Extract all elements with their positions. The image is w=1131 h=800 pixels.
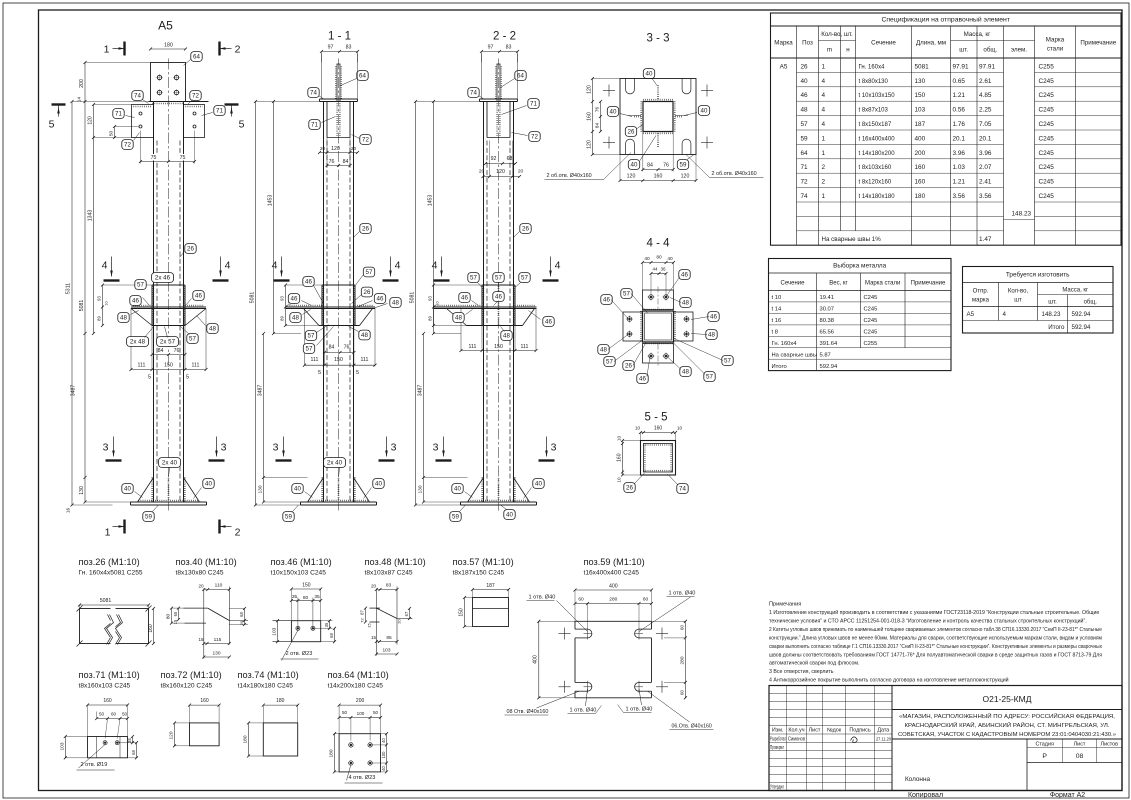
svg-text:поз.59 (М1:10): поз.59 (М1:10) xyxy=(584,557,645,567)
svg-text:40: 40 xyxy=(506,512,513,519)
svg-text:46: 46 xyxy=(681,272,688,279)
svg-text:3.96: 3.96 xyxy=(953,150,966,157)
svg-text:4: 4 xyxy=(822,92,826,99)
svg-text:2.25: 2.25 xyxy=(979,107,992,114)
svg-text:97: 97 xyxy=(328,45,334,51)
svg-text:57: 57 xyxy=(706,374,713,381)
svg-text:4 - 4: 4 - 4 xyxy=(646,238,670,250)
svg-text:4: 4 xyxy=(822,107,826,114)
svg-text:592.94: 592.94 xyxy=(820,364,839,370)
svg-text:2 Катеты угловых швов принимат: 2 Катеты угловых швов принимать по наиме… xyxy=(769,626,1102,633)
svg-text:148.23: 148.23 xyxy=(1012,211,1032,218)
svg-text:120: 120 xyxy=(169,731,175,739)
svg-text:160: 160 xyxy=(587,112,593,121)
svg-text:130: 130 xyxy=(79,486,85,495)
svg-text:160: 160 xyxy=(103,698,112,704)
svg-text:72: 72 xyxy=(360,618,365,623)
svg-text:Разработал: Разработал xyxy=(770,736,786,742)
svg-text:111: 111 xyxy=(311,357,319,363)
svg-text:80: 80 xyxy=(656,255,662,261)
svg-text:«МАГАЗИН, РАСПОЛОЖЕННЫЙ ПО АДР: «МАГАЗИН, РАСПОЛОЖЕННЫЙ ПО АДРЕСУ: РОССИ… xyxy=(899,712,1115,720)
svg-text:26: 26 xyxy=(362,226,369,233)
svg-text:Отпр.: Отпр. xyxy=(973,289,989,295)
svg-text:592.94: 592.94 xyxy=(1072,324,1091,331)
svg-text:5081: 5081 xyxy=(100,598,112,604)
svg-text:40: 40 xyxy=(124,486,131,493)
svg-text:180: 180 xyxy=(243,735,249,743)
svg-text:С255: С255 xyxy=(1039,63,1055,70)
svg-text:Марка: Марка xyxy=(1046,37,1065,44)
svg-text:t 14х180х180: t 14х180х180 xyxy=(859,194,896,200)
svg-text:83: 83 xyxy=(346,45,352,51)
svg-text:3 - 3: 3 - 3 xyxy=(646,33,669,45)
svg-text:Утвердил: Утвердил xyxy=(770,785,784,791)
svg-text:64: 64 xyxy=(359,73,366,80)
svg-text:поз.71 (М1:10): поз.71 (М1:10) xyxy=(79,670,140,680)
svg-text:Формат А2: Формат А2 xyxy=(1050,792,1085,799)
svg-text:t8х160х103 С245: t8х160х103 С245 xyxy=(79,682,131,689)
svg-text:130: 130 xyxy=(212,651,220,657)
svg-text:400: 400 xyxy=(609,584,618,590)
svg-text:Кол.уч: Кол.уч xyxy=(788,728,804,734)
svg-text:103: 103 xyxy=(915,107,926,114)
svg-text:46: 46 xyxy=(801,92,809,99)
svg-text:280: 280 xyxy=(680,656,686,664)
svg-text:С245: С245 xyxy=(1039,135,1055,142)
svg-text:4: 4 xyxy=(432,260,438,272)
svg-text:150: 150 xyxy=(915,92,926,99)
svg-text:40: 40 xyxy=(381,738,386,743)
svg-text:Изм.: Изм. xyxy=(772,728,784,734)
svg-text:72: 72 xyxy=(124,142,131,149)
svg-text:103: 103 xyxy=(272,627,278,635)
svg-text:83: 83 xyxy=(386,583,392,589)
svg-text:65: 65 xyxy=(173,611,178,616)
svg-text:71: 71 xyxy=(801,164,809,171)
svg-text:А5: А5 xyxy=(967,311,975,318)
svg-text:59: 59 xyxy=(285,514,292,521)
svg-text:200: 200 xyxy=(915,150,926,157)
svg-text:592.94: 592.94 xyxy=(1072,311,1091,318)
svg-text:68: 68 xyxy=(239,612,244,617)
svg-text:15: 15 xyxy=(371,635,377,640)
svg-text:Подпись: Подпись xyxy=(849,728,871,734)
svg-text:180: 180 xyxy=(329,749,335,757)
svg-text:65.56: 65.56 xyxy=(820,329,835,335)
svg-text:2х 57: 2х 57 xyxy=(160,339,176,346)
svg-text:Вес, кг: Вес, кг xyxy=(829,281,848,287)
svg-text:59: 59 xyxy=(801,135,809,142)
svg-text:57: 57 xyxy=(366,269,373,276)
svg-text:Требуется изготовить: Требуется изготовить xyxy=(1006,271,1070,279)
svg-text:59: 59 xyxy=(452,514,459,521)
svg-text:швов должны соответствовать тр: швов должны соответствовать требованиям … xyxy=(769,651,1102,658)
svg-text:4: 4 xyxy=(1003,311,1007,318)
svg-text:40: 40 xyxy=(644,256,650,262)
svg-text:120: 120 xyxy=(627,174,636,180)
svg-text:марка: марка xyxy=(972,298,990,304)
svg-text:110: 110 xyxy=(215,583,223,589)
svg-text:85: 85 xyxy=(386,635,392,641)
svg-text:Кол-во, шт.: Кол-во, шт. xyxy=(821,31,853,38)
svg-text:поз.48 (М1:10): поз.48 (М1:10) xyxy=(365,557,426,567)
svg-text:Масса, кг: Масса, кг xyxy=(964,31,991,38)
svg-text:Р: Р xyxy=(1042,753,1047,760)
svg-text:115: 115 xyxy=(214,637,222,643)
svg-text:100: 100 xyxy=(381,751,386,759)
svg-text:3: 3 xyxy=(433,442,439,454)
svg-text:Марка стали: Марка стали xyxy=(865,281,900,287)
svg-text:Примечание: Примечание xyxy=(911,281,946,287)
svg-text:СОВЕТСКАЯ, УЧАСТОК С КАДАСТРОВ: СОВЕТСКАЯ, УЧАСТОК С КАДАСТРОВЫМ НОМЕРОМ… xyxy=(898,732,1116,738)
svg-text:2х 40: 2х 40 xyxy=(162,460,178,467)
svg-text:1 - 1: 1 - 1 xyxy=(328,31,351,43)
svg-text:поз.74 (М1:10): поз.74 (М1:10) xyxy=(238,670,299,680)
svg-text:40: 40 xyxy=(646,71,653,78)
svg-text:48: 48 xyxy=(600,347,607,354)
svg-text:89: 89 xyxy=(97,316,102,321)
svg-text:технические условия” и СТО АРС: технические условия” и СТО АРСС 11251254… xyxy=(769,618,1087,625)
svg-text:10: 10 xyxy=(617,477,622,483)
svg-text:40: 40 xyxy=(535,481,542,488)
svg-text:3487: 3487 xyxy=(71,385,77,397)
svg-text:64: 64 xyxy=(193,54,200,61)
svg-text:08 Отв. Ø40х160: 08 Отв. Ø40х160 xyxy=(507,709,549,715)
svg-text:t8х187х150 С245: t8х187х150 С245 xyxy=(453,569,505,576)
svg-text:t 16: t 16 xyxy=(772,318,782,324)
svg-text:4: 4 xyxy=(555,260,561,272)
svg-text:4: 4 xyxy=(102,260,108,272)
svg-text:1.21: 1.21 xyxy=(953,92,966,99)
svg-text:75: 75 xyxy=(180,155,186,161)
svg-text:26: 26 xyxy=(187,246,194,253)
svg-text:68: 68 xyxy=(131,750,136,755)
svg-text:391.64: 391.64 xyxy=(820,341,839,347)
svg-text:120: 120 xyxy=(587,85,593,94)
svg-text:35: 35 xyxy=(127,738,132,743)
svg-text:48: 48 xyxy=(503,333,510,340)
svg-text:2: 2 xyxy=(235,527,241,539)
svg-text:100: 100 xyxy=(357,711,365,716)
svg-text:1.21: 1.21 xyxy=(953,179,966,186)
svg-text:1: 1 xyxy=(822,193,826,200)
svg-text:5081: 5081 xyxy=(915,63,930,70)
svg-text:С245: С245 xyxy=(1039,179,1055,186)
svg-text:150: 150 xyxy=(302,583,311,589)
svg-text:72: 72 xyxy=(362,137,369,144)
svg-text:74: 74 xyxy=(470,90,477,97)
svg-text:40: 40 xyxy=(454,486,461,493)
svg-text:35: 35 xyxy=(292,594,298,600)
svg-text:КРАСНОДАРСКИЙ КРАЙ, АБИНСКИЙ Р: КРАСНОДАРСКИЙ КРАЙ, АБИНСКИЙ РАЙОН, СТ. … xyxy=(905,721,1110,729)
svg-text:t 16х400х400: t 16х400х400 xyxy=(859,136,896,142)
svg-text:71: 71 xyxy=(216,108,223,115)
svg-text:160: 160 xyxy=(617,453,623,462)
svg-text:57: 57 xyxy=(470,275,477,282)
svg-text:60: 60 xyxy=(680,625,685,630)
svg-text:20: 20 xyxy=(239,620,244,625)
svg-text:75: 75 xyxy=(151,155,157,161)
svg-text:187: 187 xyxy=(486,583,495,589)
svg-text:поз.64 (М1:10): поз.64 (М1:10) xyxy=(328,670,389,680)
svg-text:48: 48 xyxy=(120,315,127,322)
svg-text:поз.40 (М1:10): поз.40 (М1:10) xyxy=(176,557,237,567)
svg-text:4: 4 xyxy=(272,260,278,272)
svg-text:111: 111 xyxy=(469,344,477,350)
svg-text:4 отв. Ø23: 4 отв. Ø23 xyxy=(349,775,376,781)
svg-text:89: 89 xyxy=(280,316,285,321)
svg-text:74: 74 xyxy=(679,486,686,493)
svg-text:26: 26 xyxy=(801,63,809,70)
svg-text:3487: 3487 xyxy=(418,385,424,397)
svg-text:t 8х103х160: t 8х103х160 xyxy=(859,165,892,171)
svg-text:А5: А5 xyxy=(780,63,788,70)
svg-text:48: 48 xyxy=(708,332,715,339)
svg-text:t8х103х87 С245: t8х103х87 С245 xyxy=(365,569,413,576)
svg-text:187: 187 xyxy=(915,121,926,128)
svg-text:46: 46 xyxy=(710,314,717,321)
svg-text:2х 48: 2х 48 xyxy=(130,339,146,346)
svg-text:120: 120 xyxy=(496,169,505,175)
svg-text:80: 80 xyxy=(166,614,172,620)
svg-text:5311: 5311 xyxy=(66,283,72,294)
svg-text:15: 15 xyxy=(198,637,204,642)
svg-text:97: 97 xyxy=(488,45,494,51)
svg-text:50: 50 xyxy=(342,710,348,715)
svg-text:400: 400 xyxy=(533,655,539,664)
svg-text:С255: С255 xyxy=(864,341,878,347)
svg-text:111: 111 xyxy=(192,363,200,369)
svg-text:97.91: 97.91 xyxy=(953,63,969,70)
svg-text:120: 120 xyxy=(331,146,340,152)
svg-text:автоматической сварки под флюс: автоматической сварки под флюсом. xyxy=(769,660,860,667)
svg-text:26: 26 xyxy=(522,226,529,233)
svg-text:120: 120 xyxy=(587,140,593,149)
svg-text:180: 180 xyxy=(915,193,926,200)
svg-text:14: 14 xyxy=(77,97,82,103)
svg-text:150: 150 xyxy=(164,363,173,369)
svg-text:130: 130 xyxy=(915,78,926,85)
svg-text:С245: С245 xyxy=(1039,150,1055,157)
svg-text:84: 84 xyxy=(647,163,653,169)
svg-text:130: 130 xyxy=(418,485,424,493)
svg-text:5: 5 xyxy=(318,370,321,376)
svg-text:Сечение: Сечение xyxy=(781,281,806,287)
svg-text:160: 160 xyxy=(654,426,663,432)
svg-text:46: 46 xyxy=(639,376,646,383)
svg-text:2 отв. Ø23: 2 отв. Ø23 xyxy=(286,651,313,657)
svg-text:общ.: общ. xyxy=(983,47,997,54)
svg-text:А5: А5 xyxy=(158,19,173,33)
svg-text:93: 93 xyxy=(280,296,285,301)
svg-text:76: 76 xyxy=(344,345,350,351)
svg-text:2 - 2: 2 - 2 xyxy=(493,31,516,43)
svg-text:Примечания: Примечания xyxy=(769,602,801,608)
svg-text:80: 80 xyxy=(303,595,309,601)
svg-text:83: 83 xyxy=(506,45,512,51)
svg-text:С245: С245 xyxy=(864,318,878,324)
svg-text:57: 57 xyxy=(189,336,196,343)
svg-text:400: 400 xyxy=(915,135,926,142)
svg-text:1 отв. Ø40: 1 отв. Ø40 xyxy=(529,595,556,601)
svg-text:1 отв. Ø40: 1 отв. Ø40 xyxy=(570,708,597,714)
svg-text:64: 64 xyxy=(801,150,809,157)
svg-text:72: 72 xyxy=(801,179,809,186)
svg-text:Гн. 160х4: Гн. 160х4 xyxy=(772,341,798,347)
svg-text:t14х180х180 С245: t14х180х180 С245 xyxy=(238,682,294,689)
svg-text:111: 111 xyxy=(361,357,369,363)
svg-text:76: 76 xyxy=(595,107,600,113)
svg-text:46: 46 xyxy=(495,294,502,301)
svg-text:40: 40 xyxy=(375,481,382,488)
svg-text:№док: №док xyxy=(827,728,842,734)
svg-text:48: 48 xyxy=(292,315,299,322)
svg-text:71: 71 xyxy=(530,101,537,108)
svg-text:5: 5 xyxy=(49,119,55,131)
svg-text:2.07: 2.07 xyxy=(979,164,992,171)
svg-text:46: 46 xyxy=(291,296,298,303)
svg-text:60: 60 xyxy=(111,712,117,717)
svg-text:20.1: 20.1 xyxy=(953,135,966,142)
svg-text:57: 57 xyxy=(306,346,313,353)
svg-text:Лист: Лист xyxy=(1074,741,1086,747)
svg-text:t 14х180х200: t 14х180х200 xyxy=(859,151,896,157)
svg-text:Проверил: Проверил xyxy=(770,745,784,751)
svg-text:59: 59 xyxy=(145,514,152,521)
svg-text:80.38: 80.38 xyxy=(820,318,835,324)
svg-text:74: 74 xyxy=(134,93,141,100)
svg-text:20: 20 xyxy=(198,584,204,589)
svg-text:Масса, кг: Масса, кг xyxy=(1062,288,1089,294)
svg-text:76: 76 xyxy=(663,163,669,169)
svg-text:сварки выполнить согласно табл: сварки выполнить согласно таблице Г.1 СП… xyxy=(769,644,1102,650)
svg-text:Выборка металла: Выборка металла xyxy=(833,262,886,270)
svg-text:71: 71 xyxy=(311,122,318,129)
svg-text:200: 200 xyxy=(79,79,85,88)
svg-text:40: 40 xyxy=(667,256,673,262)
svg-text:3.56: 3.56 xyxy=(979,193,992,200)
svg-text:2х 46: 2х 46 xyxy=(155,275,171,282)
svg-text:4: 4 xyxy=(822,78,826,85)
svg-text:1: 1 xyxy=(822,150,826,157)
svg-text:148.23: 148.23 xyxy=(1042,311,1061,318)
svg-text:5: 5 xyxy=(186,375,189,381)
svg-text:59: 59 xyxy=(680,162,687,169)
svg-text:3: 3 xyxy=(103,442,109,454)
svg-text:40: 40 xyxy=(381,766,386,771)
svg-text:Листов: Листов xyxy=(1101,741,1119,747)
svg-text:46: 46 xyxy=(132,298,139,305)
svg-text:t16х400х400 С245: t16х400х400 С245 xyxy=(584,569,640,576)
svg-text:t8х160х120 С245: t8х160х120 С245 xyxy=(161,682,213,689)
svg-text:76: 76 xyxy=(329,159,335,165)
svg-text:50: 50 xyxy=(99,712,105,717)
svg-text:3: 3 xyxy=(221,442,227,454)
svg-text:103: 103 xyxy=(382,648,390,654)
svg-text:элем.: элем. xyxy=(1011,47,1027,54)
svg-text:t 8х87х103: t 8х87х103 xyxy=(859,108,889,114)
svg-text:46: 46 xyxy=(603,297,610,304)
svg-text:93: 93 xyxy=(97,296,102,301)
svg-text:08: 08 xyxy=(1076,753,1084,760)
svg-text:С245: С245 xyxy=(1039,121,1055,128)
svg-text:С245: С245 xyxy=(1039,92,1055,99)
svg-text:5 - 5: 5 - 5 xyxy=(644,412,667,424)
svg-text:120: 120 xyxy=(88,116,94,125)
svg-text:48: 48 xyxy=(682,369,689,376)
svg-text:93: 93 xyxy=(428,296,433,301)
svg-text:10: 10 xyxy=(436,301,440,305)
svg-text:С245: С245 xyxy=(1039,107,1055,114)
svg-text:111: 111 xyxy=(521,344,529,350)
svg-text:92: 92 xyxy=(491,156,497,162)
svg-text:Гн. 160х4: Гн. 160х4 xyxy=(859,64,886,70)
svg-text:20: 20 xyxy=(371,584,377,589)
svg-text:57: 57 xyxy=(801,121,809,128)
svg-text:150: 150 xyxy=(494,344,503,350)
svg-text:71: 71 xyxy=(115,111,122,118)
svg-text:84: 84 xyxy=(158,348,164,354)
svg-text:57: 57 xyxy=(724,358,731,365)
svg-text:2 об.отв. Ø40х160: 2 об.отв. Ø40х160 xyxy=(712,171,757,177)
svg-text:97.91: 97.91 xyxy=(979,63,995,70)
svg-text:10: 10 xyxy=(617,436,622,442)
svg-text:5: 5 xyxy=(239,119,245,131)
svg-text:Копировал: Копировал xyxy=(908,792,943,799)
svg-text:7.05: 7.05 xyxy=(979,121,992,128)
svg-text:4: 4 xyxy=(395,260,401,272)
svg-text:2: 2 xyxy=(235,44,241,56)
svg-text:40: 40 xyxy=(610,109,617,116)
svg-text:40: 40 xyxy=(631,162,638,169)
svg-text:конструкции.” Длина угловых ш: конструкции.” Длина угловых швов не мене… xyxy=(769,635,1102,641)
svg-text:шт.: шт. xyxy=(959,47,968,54)
svg-text:84: 84 xyxy=(329,345,335,351)
svg-text:46: 46 xyxy=(377,296,384,303)
svg-text:поз.26 (М1:10): поз.26 (М1:10) xyxy=(79,557,140,567)
svg-text:67: 67 xyxy=(404,611,409,616)
svg-text:48: 48 xyxy=(392,300,399,307)
svg-text:поз.72 (М1:10): поз.72 (М1:10) xyxy=(161,670,222,680)
svg-text:4: 4 xyxy=(822,121,826,128)
svg-text:1.47: 1.47 xyxy=(979,236,992,243)
svg-text:89: 89 xyxy=(428,316,433,321)
svg-text:С245: С245 xyxy=(1039,78,1055,85)
svg-text:t 8: t 8 xyxy=(772,329,778,335)
svg-text:180: 180 xyxy=(164,43,173,49)
svg-text:5: 5 xyxy=(356,370,359,376)
svg-text:160: 160 xyxy=(915,164,926,171)
svg-text:160: 160 xyxy=(654,174,663,180)
svg-text:26: 26 xyxy=(625,363,632,370)
svg-text:3487: 3487 xyxy=(258,385,264,397)
svg-text:3: 3 xyxy=(551,442,557,454)
svg-text:130: 130 xyxy=(258,485,264,493)
svg-text:68: 68 xyxy=(329,633,334,638)
svg-text:Колонна: Колонна xyxy=(905,776,931,783)
svg-text:30.07: 30.07 xyxy=(820,307,835,313)
svg-text:50: 50 xyxy=(109,131,115,137)
svg-text:1: 1 xyxy=(104,44,110,56)
svg-text:t 8х80х130: t 8х80х130 xyxy=(859,79,889,85)
svg-text:60: 60 xyxy=(643,597,649,603)
svg-text:57: 57 xyxy=(606,359,613,366)
svg-text:68: 68 xyxy=(507,156,513,162)
svg-text:1343: 1343 xyxy=(88,210,94,222)
svg-text:06.Отв. Ø40х160: 06.Отв. Ø40х160 xyxy=(672,724,712,730)
svg-text:46: 46 xyxy=(305,279,312,286)
svg-text:t14х200х180 С245: t14х200х180 С245 xyxy=(328,682,384,689)
